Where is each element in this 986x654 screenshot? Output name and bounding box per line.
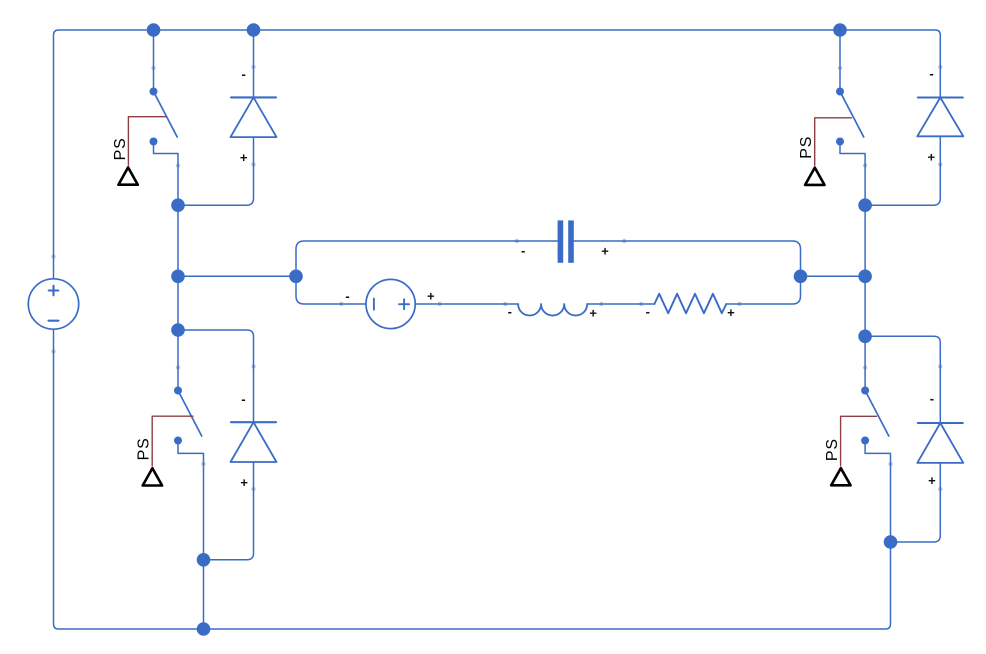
diode D3 (bottom-left) (178, 330, 277, 560)
junction dot load loop left node (289, 270, 303, 284)
switch S3 (bottom-left) (174, 387, 204, 560)
PS control wire S2 (815, 118, 852, 166)
junction dot load loop right node (794, 270, 808, 284)
wire left rail lower and bottom bus (54, 329, 891, 629)
svg-text:-: - (929, 66, 933, 81)
switch S4 (bottom-right) (861, 387, 890, 543)
PS port triangle S2 (805, 168, 824, 185)
svg-text:PS: PS (112, 137, 129, 160)
PS port triangle S4 (831, 468, 850, 485)
junction dot S4/D4 node (884, 535, 898, 549)
svg-text:+: + (589, 306, 597, 321)
inductor L1 (518, 304, 587, 316)
wire load loop capacitor branch (296, 241, 557, 270)
resistor R1 (654, 294, 726, 313)
diode D4 (bottom-right) (865, 336, 963, 542)
wire top bus and left rail upper (54, 30, 941, 279)
PS control wire S4 (841, 416, 877, 466)
junction dot top bus / S2 (833, 23, 847, 37)
switch S2 (top-right) (836, 30, 865, 205)
svg-text:+: + (427, 289, 435, 304)
wire load left link (178, 275, 296, 277)
switch S1 (top-left) (150, 30, 179, 205)
svg-text:PS: PS (136, 437, 153, 460)
junction dot S1/D1 node (171, 198, 185, 212)
DC voltage source V1 (28, 279, 78, 329)
svg-text:PS: PS (798, 136, 815, 159)
svg-text:+: + (601, 244, 609, 259)
port marks (faint) (51, 65, 942, 491)
DC voltage source V2 (load branch) (366, 279, 415, 328)
PS control wire S3 (152, 416, 193, 466)
svg-text:-: - (242, 67, 246, 82)
PS port triangle S3 (143, 468, 162, 485)
junction dot top bus / S1 (147, 23, 161, 37)
svg-text:-: - (646, 304, 650, 319)
wire load right link (801, 275, 866, 277)
junction dot S3/D3 node (197, 553, 211, 567)
capacitor C1 plates (558, 220, 574, 262)
diode D1 (top-left) (180, 30, 277, 205)
svg-text:+: + (240, 475, 248, 490)
diode D2 (top-right) (867, 98, 963, 206)
wire right mid rail (864, 205, 866, 387)
PS control wire S1 (128, 117, 165, 166)
svg-text:-: - (521, 243, 525, 258)
junction dot right rail / load (858, 270, 872, 284)
svg-text:PS: PS (824, 438, 841, 461)
svg-text:+: + (240, 150, 248, 165)
PS port triangle S1 (118, 167, 137, 184)
wire load loop lower branch right (726, 283, 800, 304)
wire S3 junction to bottom bus (203, 560, 205, 629)
wire V2 to inductor (415, 303, 518, 305)
junction dot left rail / load (171, 270, 185, 284)
wire left mid rail (177, 205, 179, 387)
svg-text:+: + (928, 473, 936, 488)
junction dot bottom bus / S3 (197, 622, 211, 636)
wire inductor to resistor (587, 303, 654, 305)
svg-text:-: - (930, 391, 934, 406)
svg-text:+: + (928, 150, 936, 165)
svg-text:-: - (345, 288, 349, 303)
svg-text:+: + (727, 305, 735, 320)
junction dot top bus / D1 (247, 23, 261, 37)
junction dot S2/D2 node (858, 198, 872, 212)
wire load loop lower branch left (296, 283, 366, 304)
junction dot left rail / D3 (171, 323, 185, 337)
junction dot right rail / D4 (858, 330, 872, 344)
svg-text:-: - (508, 304, 512, 319)
svg-text:-: - (241, 392, 245, 407)
